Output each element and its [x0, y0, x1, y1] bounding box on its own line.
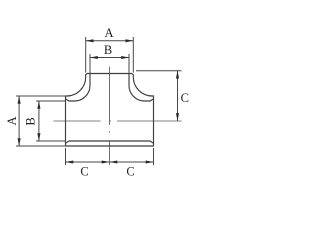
svg-text:C: C	[181, 91, 189, 105]
svg-text:B: B	[23, 117, 37, 125]
svg-text:B: B	[104, 43, 112, 57]
svg-text:A: A	[5, 116, 19, 125]
svg-text:A: A	[104, 26, 113, 40]
svg-text:C: C	[126, 165, 134, 179]
svg-text:C: C	[80, 165, 88, 179]
